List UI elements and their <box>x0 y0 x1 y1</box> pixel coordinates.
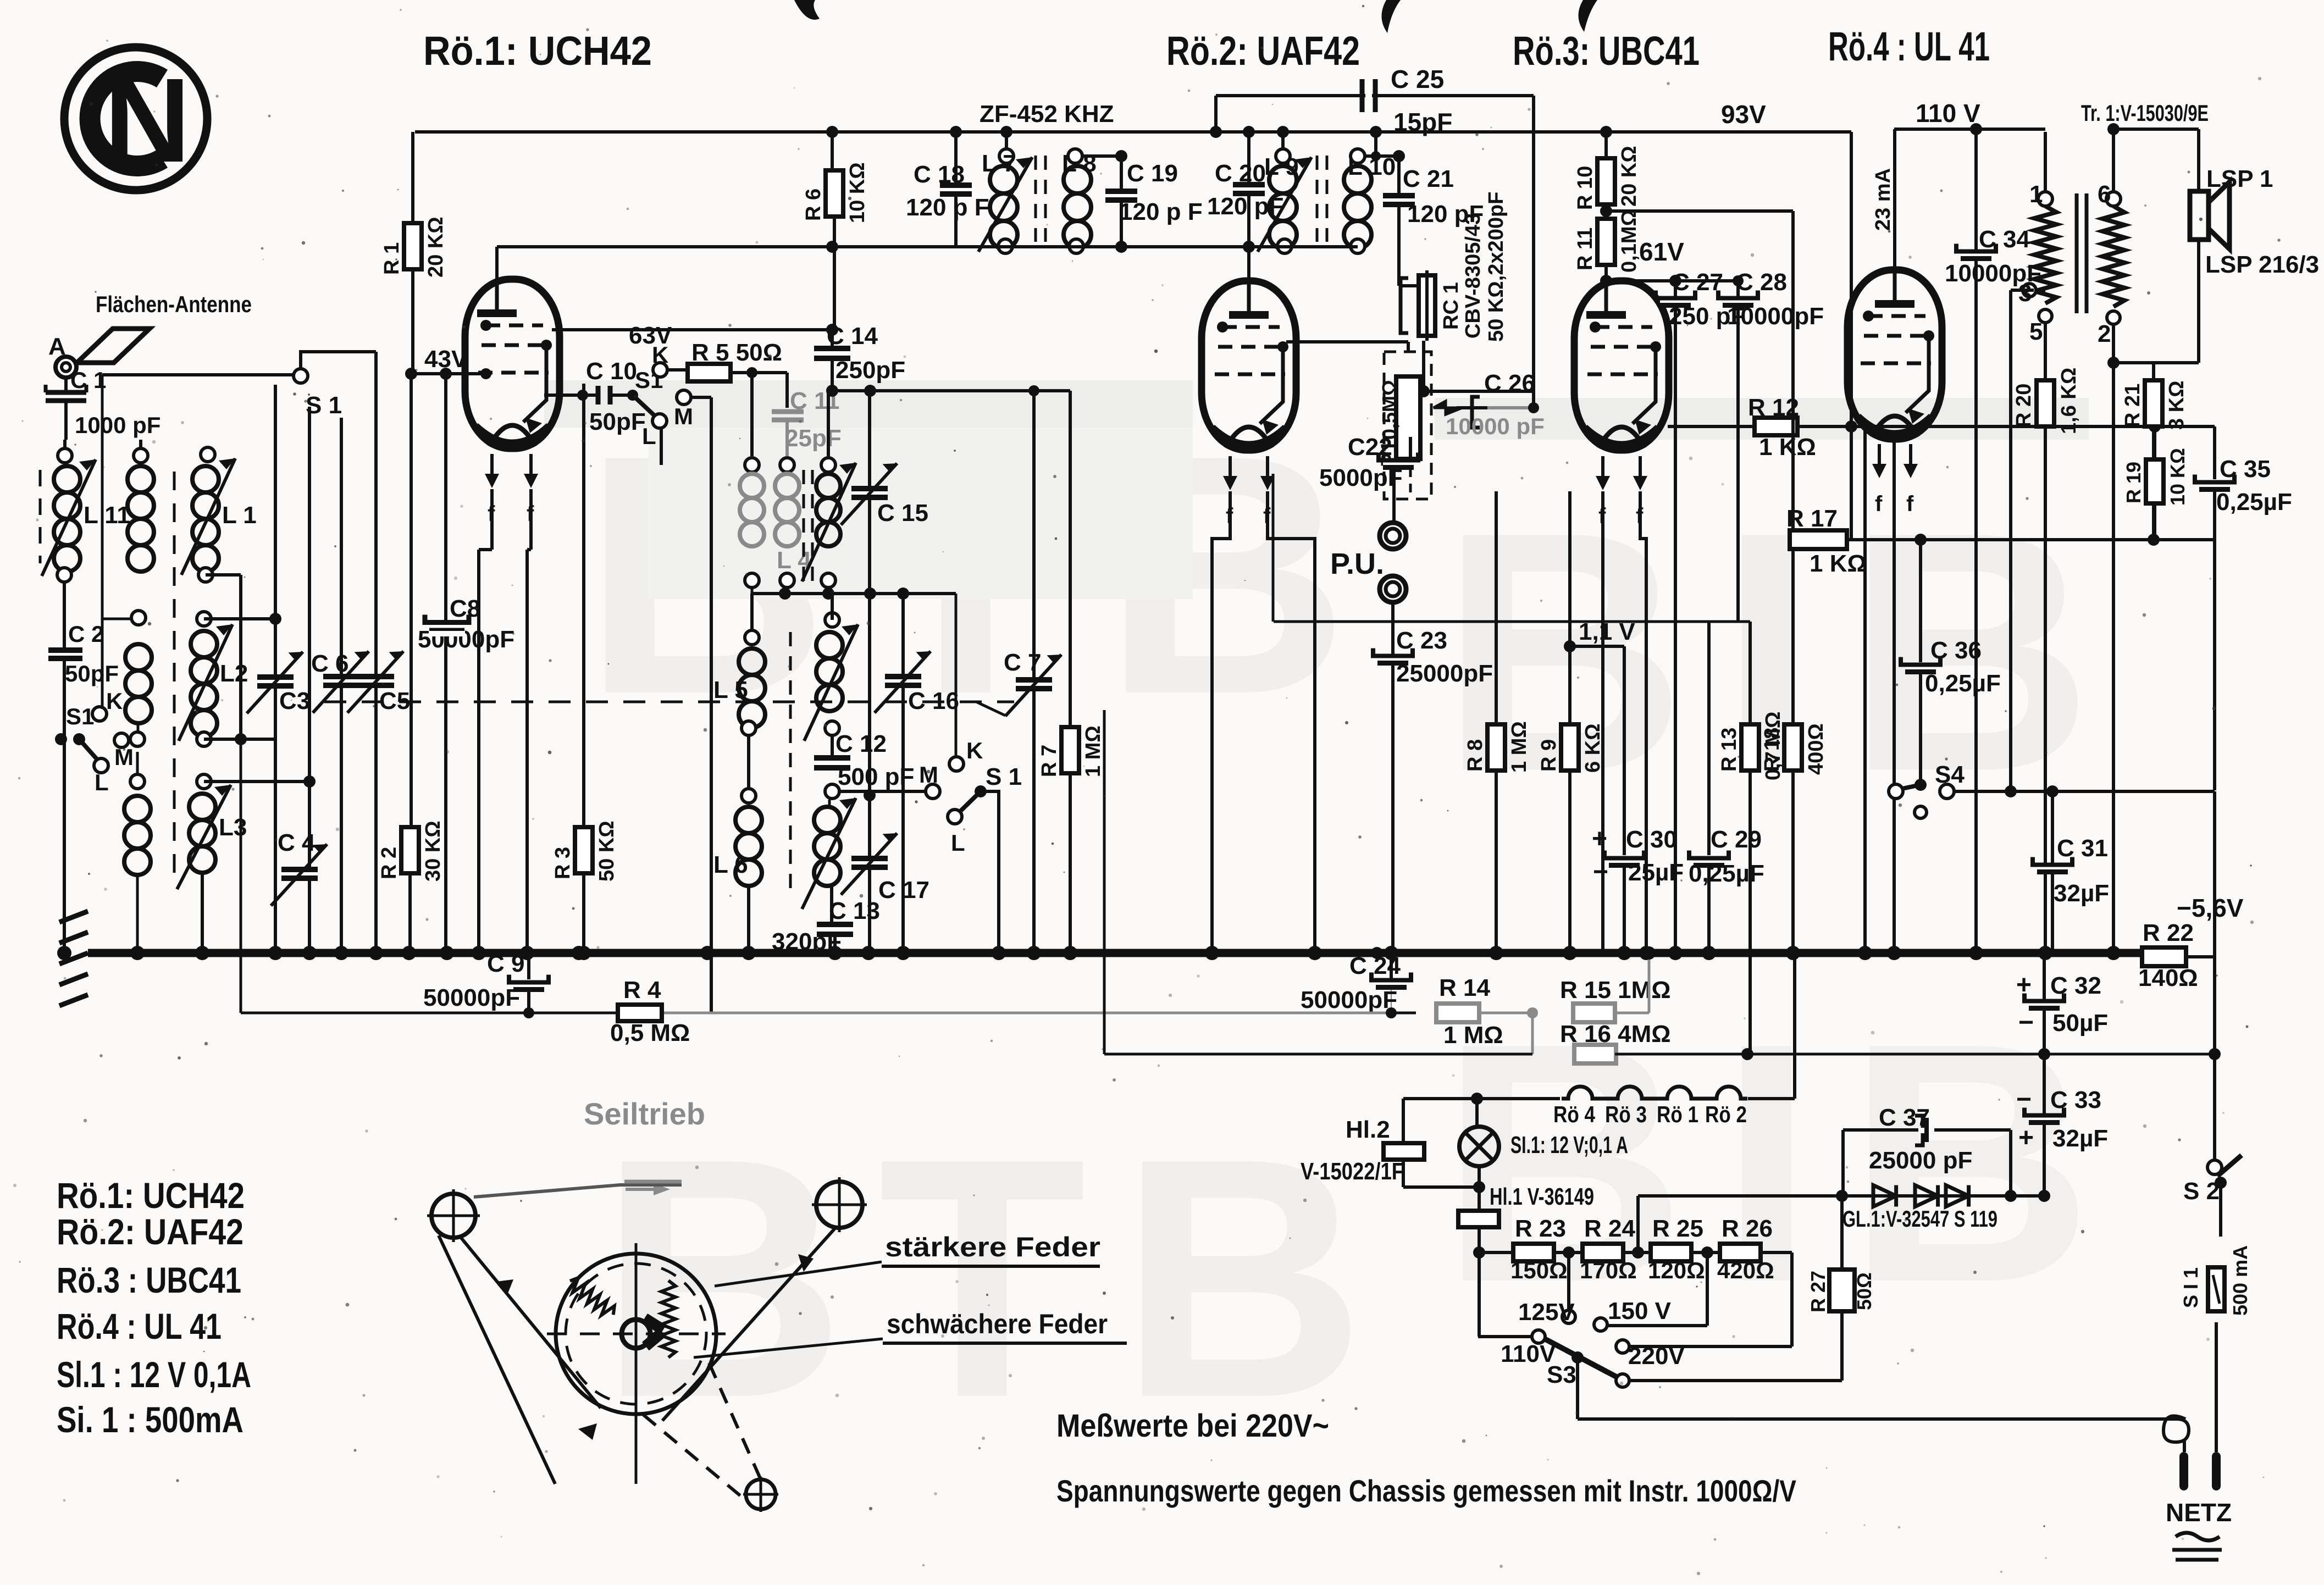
dashed wire C22 <box>1409 468 1412 499</box>
svg-text:150Ω: 150Ω <box>1510 1257 1568 1283</box>
svg-text:61V: 61V <box>1639 237 1684 266</box>
svg-text:2: 2 <box>2098 320 2111 347</box>
jack PU top <box>1392 468 1396 522</box>
resistor R17 <box>1790 538 1793 541</box>
svg-text:Tr. 1:V-15030/9E: Tr. 1:V-15030/9E <box>2081 100 2209 126</box>
wire tube2 grid avc <box>1272 474 1275 622</box>
svg-text:V-15022/1F: V-15022/1F <box>1301 1158 1404 1185</box>
svg-text:L 8: L 8 <box>1062 150 1097 177</box>
svg-text:Rö.3: UBC41: Rö.3: UBC41 <box>1513 28 1700 74</box>
capacitor C20 <box>1233 186 1265 192</box>
svg-text:R 11: R 11 <box>1574 228 1597 270</box>
seiltrieb spring strong <box>565 1275 618 1321</box>
svg-text:stärkere Feder: stärkere Feder <box>885 1232 1100 1262</box>
svg-text:120Ω: 120Ω <box>1648 1257 1705 1283</box>
svg-text:C 33: C 33 <box>2050 1087 2101 1113</box>
capacitor C5 variable <box>374 352 378 953</box>
capacitor C10 <box>596 386 601 404</box>
svg-text:C 31: C 31 <box>2057 835 2108 862</box>
svg-text:C 23: C 23 <box>1396 627 1447 654</box>
svg-text:Si. 1 : 500mA: Si. 1 : 500mA <box>57 1399 244 1440</box>
scan gray band 2 <box>649 428 1193 599</box>
scan smudge top <box>794 0 820 20</box>
capacitor C14 <box>831 330 834 347</box>
osc coil tuned lower <box>814 807 840 833</box>
svg-text:S 1: S 1 <box>986 763 1022 790</box>
resistor R27 <box>1829 1270 1855 1311</box>
capacitor C28 <box>1736 281 1740 622</box>
dashed core mid <box>173 472 176 874</box>
svg-text:LSP 216/3: LSP 216/3 <box>2205 251 2319 278</box>
seiltrieb arrows small <box>496 1279 513 1296</box>
svg-text:140Ω: 140Ω <box>2138 965 2198 991</box>
capacitor C15 variable <box>868 391 871 594</box>
resistor R21 <box>2152 363 2155 383</box>
coil L11 <box>58 448 72 463</box>
svg-text:C 2: C 2 <box>68 621 104 647</box>
svg-text:R 9: R 9 <box>1537 739 1561 772</box>
coil L6 <box>735 807 762 833</box>
wire C12 to M line <box>839 790 926 793</box>
resistor R5 <box>667 368 688 372</box>
svg-text:6 KΩ: 6 KΩ <box>1581 723 1604 773</box>
svg-text:125V: 125V <box>1518 1299 1575 1326</box>
svg-text:S I 1: S I 1 <box>2179 1267 2202 1308</box>
tube Ro1 anode lead up <box>495 247 499 313</box>
svg-text:Rö.4 : UL 41: Rö.4 : UL 41 <box>57 1306 222 1346</box>
contact M osc <box>926 784 940 799</box>
wire L2 top node to C3 <box>204 617 275 620</box>
svg-text:GL.1:V-32547 S 119: GL.1:V-32547 S 119 <box>1842 1206 1997 1232</box>
capacitor C16 variable <box>901 594 905 953</box>
antenna terminal <box>56 357 76 378</box>
wire C15 column down <box>868 594 871 795</box>
wire lamp down to 110V <box>1478 1253 1481 1335</box>
rectifier GL1 diode 1 <box>1873 1185 1896 1207</box>
wire tube1 cathode line <box>544 394 596 397</box>
svg-text:S 2: S 2 <box>2183 1178 2220 1205</box>
capacitor C31 <box>2051 791 2054 864</box>
svg-text:0,1MΩ: 0,1MΩ <box>1618 209 1641 273</box>
svg-text:C 10: C 10 <box>586 358 637 385</box>
svg-text:32µF: 32µF <box>2052 1125 2108 1152</box>
chassis ground <box>59 911 88 922</box>
svg-text:R 15 1MΩ: R 15 1MΩ <box>1560 977 1671 1004</box>
svg-text:3 KΩ: 3 KΩ <box>2165 380 2188 430</box>
svg-text:R 1: R 1 <box>380 242 403 275</box>
tube Ro3 UBC41 <box>1574 281 1669 450</box>
capacitor C32 electrolytic <box>2043 957 2046 1052</box>
IF trafo 1 coil L4 left <box>745 458 759 472</box>
wire L8 top to C19 <box>1082 154 1121 158</box>
svg-text:C 32: C 32 <box>2050 972 2101 999</box>
tube Ro1 heater <box>490 454 494 480</box>
svg-text:M: M <box>674 403 693 429</box>
svg-text:25000pF: 25000pF <box>1396 660 1493 687</box>
capacitor C6 variable <box>340 418 343 953</box>
seiltrieb pulley left <box>431 1194 475 1238</box>
wire S3 pivot down to netz line <box>1576 1357 1579 1419</box>
svg-text:5000pF: 5000pF <box>1319 464 1403 491</box>
resistor R19 <box>2153 426 2156 461</box>
tube Ro2 UAF42 <box>1202 281 1296 450</box>
svg-text:250pF: 250pF <box>835 357 905 384</box>
transformer Tr1 primary <box>2038 192 2052 206</box>
svg-text:RC 1: RC 1 <box>1440 282 1463 330</box>
seiltrieb top cord <box>474 1185 682 1197</box>
svg-text:Seiltrieb: Seiltrieb <box>584 1096 705 1131</box>
svg-text:50000pF: 50000pF <box>423 984 520 1011</box>
wire antenna down <box>64 401 68 440</box>
IF trafo 1 coil right tuned <box>821 458 835 472</box>
wire Tr1 rail <box>2113 128 2199 131</box>
svg-text:20 KΩ: 20 KΩ <box>1618 146 1641 207</box>
svg-text:3: 3 <box>2018 280 2032 307</box>
capacitor C29 <box>1707 622 1711 855</box>
svg-text:L 5: L 5 <box>713 677 748 703</box>
svg-text:400Ω: 400Ω <box>1805 723 1828 775</box>
resistor R20 <box>2044 323 2047 380</box>
wire R10-R11 <box>1604 204 1608 219</box>
svg-text:L: L <box>951 830 965 856</box>
svg-text:R 17: R 17 <box>1786 505 1838 532</box>
svg-text:NETZ: NETZ <box>2166 1498 2232 1527</box>
seiltrieb pulley right <box>816 1182 862 1228</box>
svg-text:schwächere Feder: schwächere Feder <box>887 1309 1108 1339</box>
resistor R15 <box>1573 1004 1615 1022</box>
svg-text:C 21: C 21 <box>1403 165 1454 192</box>
svg-text:R 25: R 25 <box>1652 1215 1703 1242</box>
wire R1-R2 continuation <box>410 374 413 827</box>
wire M down <box>691 396 711 399</box>
svg-text:f: f <box>1875 492 1883 516</box>
wire 1,1V branch <box>1564 640 1576 652</box>
svg-text:R 10: R 10 <box>1574 166 1597 210</box>
coil L3 <box>197 774 211 789</box>
resistor R1 <box>411 132 414 226</box>
svg-text:L 7: L 7 <box>982 150 1016 177</box>
svg-text:0,25µF: 0,25µF <box>1925 670 2001 697</box>
svg-text:Rö 2: Rö 2 <box>1705 1101 1747 1127</box>
capacitor C13 <box>817 925 853 933</box>
IF trafo 1 coil mid <box>780 458 794 472</box>
svg-text:1: 1 <box>2029 181 2043 208</box>
svg-text:0,25µF: 0,25µF <box>1689 860 1764 887</box>
transformer Tr1 secondary <box>2106 192 2121 206</box>
svg-text:C 29: C 29 <box>1711 826 1762 853</box>
svg-text:L2: L2 <box>220 660 248 687</box>
svg-text:1 KΩ: 1 KΩ <box>1759 434 1816 461</box>
scan gray band 1 <box>544 380 1193 428</box>
seiltrieb hub <box>622 1320 650 1348</box>
svg-text:6: 6 <box>2098 181 2111 208</box>
svg-text:CBV-8305/43: CBV-8305/43 <box>1462 213 1485 339</box>
tube Ro4 heater <box>1878 444 1881 470</box>
capacitor C22 <box>1409 437 1412 461</box>
svg-text:Flächen-Antenne: Flächen-Antenne <box>96 291 252 317</box>
svg-text:+: + <box>1592 824 1607 854</box>
fuse Si1 <box>2219 1183 2222 1237</box>
coil L11 arrow <box>42 459 96 576</box>
tap 125V <box>1567 1253 1570 1311</box>
svg-text:R 14: R 14 <box>1439 974 1490 1001</box>
capacitor C37 <box>1841 1130 1845 1196</box>
seiltrieb arrow <box>626 1188 663 1191</box>
jack PU bottom <box>1380 576 1406 602</box>
capacitor C2 <box>48 647 82 653</box>
svg-text:50pF: 50pF <box>589 408 646 435</box>
wire RC1 down <box>1422 341 1425 391</box>
svg-text:63V: 63V <box>629 322 672 349</box>
svg-text:ZF-452 KHZ: ZF-452 KHZ <box>980 101 1114 128</box>
CN logo <box>64 47 207 190</box>
capacitor C25 <box>1360 79 1365 112</box>
wire 110V rail <box>1894 128 2045 131</box>
svg-text:10 KΩ: 10 KΩ <box>846 162 869 223</box>
potentiometer P1 <box>1384 352 1431 499</box>
svg-text:L 6: L 6 <box>713 851 748 878</box>
wire rail to C24 <box>1391 988 1392 1013</box>
svg-text:C 37: C 37 <box>1879 1104 1930 1131</box>
svg-text:30 KΩ: 30 KΩ <box>422 821 445 882</box>
svg-text:R 23: R 23 <box>1515 1215 1566 1242</box>
svg-text:Rö.3 : UBC41: Rö.3 : UBC41 <box>57 1260 241 1300</box>
svg-text:1 MΩ: 1 MΩ <box>1443 1022 1503 1049</box>
wire 43V to tube1 grid <box>411 372 486 375</box>
svg-text:C 26: C 26 <box>1484 370 1535 397</box>
svg-text:R 6: R 6 <box>802 189 825 221</box>
svg-text:R 24: R 24 <box>1584 1215 1635 1242</box>
svg-text:Rö 3: Rö 3 <box>1605 1101 1647 1127</box>
svg-text:N: N <box>104 54 190 187</box>
coil L1 <box>201 447 215 462</box>
wire rail mid node <box>950 126 962 138</box>
wire S1 down to bus <box>63 739 66 953</box>
svg-text:120 p F: 120 p F <box>906 194 989 221</box>
lamp SI.1 scale lamp <box>1475 1099 1479 1127</box>
wire P1 top from tube2 <box>1286 340 1408 343</box>
switch S2 <box>2213 1054 2216 1160</box>
svg-text:15pF: 15pF <box>1393 108 1452 136</box>
IF can2 coil L10 <box>1351 149 1365 163</box>
resistor R18 <box>1791 211 1795 727</box>
svg-text:R 18: R 18 <box>1761 728 1784 772</box>
IF can1 dashed core <box>1034 156 1037 242</box>
svg-text:R 7: R 7 <box>1038 745 1061 777</box>
svg-text:Rö.2: UAF42: Rö.2: UAF42 <box>1166 28 1360 74</box>
svg-text:Rö 1: Rö 1 <box>1657 1101 1698 1127</box>
svg-text:R 13: R 13 <box>1718 728 1741 772</box>
capacitor C7 variable <box>1032 391 1036 953</box>
resistor R22 in bus <box>2142 947 2186 966</box>
svg-text:1,6 KΩ: 1,6 KΩ <box>2057 368 2080 434</box>
svg-text:L 9: L 9 <box>1264 153 1299 180</box>
svg-text:R 26: R 26 <box>1722 1215 1773 1242</box>
wire 449 line <box>497 245 1249 248</box>
svg-text:C 28: C 28 <box>1736 269 1787 296</box>
switch S3 <box>1545 1339 1619 1378</box>
resistor R24 <box>1582 1244 1623 1261</box>
svg-text:50000pF: 50000pF <box>418 626 514 653</box>
svg-text:50 KΩ,2x200pF: 50 KΩ,2x200pF <box>1485 192 1508 342</box>
svg-text:50Ω: 50Ω <box>1853 1272 1875 1310</box>
svg-text:R 21: R 21 <box>2121 384 2144 428</box>
svg-text:C 15: C 15 <box>877 500 928 527</box>
IF trafo 1 dashed core <box>803 470 805 583</box>
node 43V <box>405 368 417 380</box>
svg-text:Rö.1: UCH42: Rö.1: UCH42 <box>423 28 652 74</box>
svg-text:C 12: C 12 <box>835 730 887 757</box>
svg-text:0,5 MΩ: 0,5 MΩ <box>610 1019 690 1046</box>
svg-text:20 KΩ: 20 KΩ <box>424 217 447 278</box>
resistor R7 <box>1069 391 1072 728</box>
svg-text:Rö.2: UAF42: Rö.2: UAF42 <box>57 1211 244 1252</box>
IF can2 coil L9 <box>1276 149 1290 163</box>
capacitor C21 <box>1364 154 1399 158</box>
switch S1 upper <box>102 373 294 376</box>
resistor R11 <box>1597 219 1615 265</box>
svg-text:50pF: 50pF <box>65 661 119 686</box>
svg-text:120 p F: 120 p F <box>1119 198 1203 225</box>
wire C7 to dashed <box>976 702 1005 716</box>
svg-text:C 19: C 19 <box>1127 160 1178 187</box>
wire L3 top to C4 line <box>204 780 309 783</box>
svg-text:93V: 93V <box>1721 100 1766 129</box>
coil L2 <box>197 612 211 626</box>
wire rail tap L10 <box>1370 126 1382 138</box>
capacitor C4 variable <box>308 407 311 953</box>
svg-text:C8: C8 <box>450 595 480 622</box>
wire speaker loop <box>2197 129 2200 191</box>
seiltrieb spring weak <box>661 1281 676 1357</box>
resistor R26 <box>1720 1244 1761 1261</box>
switch S1 mid <box>610 394 633 397</box>
resistor R10 <box>1604 132 1608 159</box>
tap 150V <box>1594 1318 1607 1331</box>
wire S1 osc riser <box>981 791 999 953</box>
svg-text:S1: S1 <box>66 703 94 729</box>
tube Ro4 anode lead <box>1893 129 1896 304</box>
svg-text:Rö.4 : UL 41: Rö.4 : UL 41 <box>1828 24 1990 69</box>
wire top rail <box>415 130 1851 134</box>
svg-text:C 13: C 13 <box>829 897 880 924</box>
wire tube2 heater leads down <box>1212 491 1230 953</box>
capacitor C23 <box>1391 603 1395 655</box>
svg-text:L: L <box>642 423 656 449</box>
wire tube4 leads down <box>1863 423 1867 953</box>
switch S4 <box>1914 779 1927 791</box>
svg-text:R 20: R 20 <box>2012 384 2035 428</box>
svg-text:32µF: 32µF <box>2054 880 2109 907</box>
antenna plate <box>77 329 150 363</box>
svg-text:L 11: L 11 <box>84 502 130 529</box>
svg-text:S 1: S 1 <box>306 392 342 419</box>
wire C21 down to RC1 <box>1397 275 1401 286</box>
svg-text:SI.1: 12 V;0,1 A: SI.1: 12 V;0,1 A <box>1510 1132 1628 1159</box>
wire K up to coil node <box>102 618 138 620</box>
wire C25 line <box>1216 94 1534 97</box>
svg-text:L 1: L 1 <box>222 502 257 529</box>
dashed core left <box>39 470 42 563</box>
wire R5 to junction <box>731 371 787 374</box>
svg-text:150 V: 150 V <box>1608 1298 1672 1324</box>
svg-text:−: − <box>1593 857 1608 886</box>
svg-text:S3: S3 <box>1547 1361 1576 1388</box>
capacitor C26 <box>1472 397 1480 428</box>
resistor R4 <box>618 1005 662 1021</box>
seiltrieb drum <box>556 1254 716 1414</box>
wire low rail 1843 <box>241 1012 618 1015</box>
capacitor C11 <box>772 409 804 414</box>
wire R17 line corner down <box>2213 540 2216 790</box>
svg-text:420Ω: 420Ω <box>1717 1257 1774 1283</box>
wire L3 down to bus <box>201 874 204 953</box>
dashed AGC line <box>324 701 1014 703</box>
svg-text:500 mA: 500 mA <box>2229 1245 2251 1316</box>
capacitor C36 <box>1919 540 1922 662</box>
svg-text:R 19: R 19 <box>2122 462 2145 503</box>
svg-text:5: 5 <box>2029 318 2043 345</box>
svg-text:+: + <box>2018 1123 2034 1152</box>
tap 220V <box>1616 1340 1629 1353</box>
tube Ro3 anode lead <box>1604 281 1608 315</box>
svg-text:1 KΩ: 1 KΩ <box>1810 550 1867 577</box>
wire gray bus 1131 <box>1274 620 1750 623</box>
svg-text:110 V: 110 V <box>1916 99 1980 128</box>
svg-text:C 7: C 7 <box>1004 649 1041 676</box>
wire R21 top to speaker <box>2113 361 2154 364</box>
svg-text:R 4: R 4 <box>623 977 661 1004</box>
wire 61V right <box>1606 279 1738 282</box>
svg-text:C 34: C 34 <box>1979 226 2030 253</box>
wire 1080 down to L5 <box>750 594 754 638</box>
scan gray band 3 <box>1435 398 2089 440</box>
svg-text:S4: S4 <box>1935 761 1965 788</box>
rectifier GL1 diode 3 <box>1946 1185 1969 1207</box>
node 61V <box>1604 265 1608 281</box>
svg-text:L: L <box>95 769 109 795</box>
netz AC symbol <box>2176 1533 2220 1540</box>
resistor R25 <box>1651 1244 1691 1261</box>
wire S3 moving to R27 <box>1629 1379 1842 1382</box>
svg-text:C 30: C 30 <box>1626 826 1677 853</box>
resistor R2 <box>401 827 419 873</box>
dashed core osc <box>789 632 792 890</box>
svg-text:23 mA: 23 mA <box>1872 168 1895 231</box>
svg-text:R 3: R 3 <box>551 847 574 879</box>
antenna coil bottom <box>130 774 145 789</box>
capacitor C34 <box>1974 129 1978 251</box>
svg-text:K: K <box>966 738 983 763</box>
svg-text:C 9: C 9 <box>487 950 524 977</box>
svg-text:−5,6V: −5,6V <box>2177 894 2244 922</box>
svg-text:1000 pF: 1000 pF <box>75 412 161 438</box>
wire R10 tap right <box>1606 209 1793 213</box>
svg-text:0,25µF: 0,25µF <box>2216 489 2292 516</box>
wire junction down to L4 <box>750 373 754 456</box>
resistor R13 <box>1748 622 1752 727</box>
svg-text:C 36: C 36 <box>1930 637 1982 664</box>
svg-text:R 16 4MΩ: R 16 4MΩ <box>1560 1021 1671 1048</box>
svg-text:25000 pF: 25000 pF <box>1869 1147 1972 1174</box>
wire L11 to C2 <box>63 582 66 649</box>
capacitor C18 <box>954 132 958 247</box>
svg-text:10000pF: 10000pF <box>1727 303 1824 330</box>
seiltrieb bottom pulley <box>746 1479 776 1509</box>
tube Ro4 UL41 <box>1847 270 1942 439</box>
capacitor C35 <box>2155 425 2215 428</box>
capacitor C12 <box>831 735 834 756</box>
